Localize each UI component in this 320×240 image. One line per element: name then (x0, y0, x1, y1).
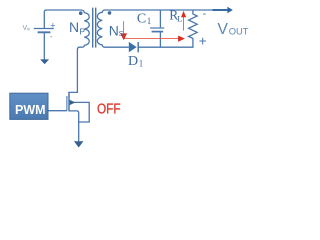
svg-text:+: + (199, 33, 207, 48)
svg-text:C: C (137, 11, 146, 26)
svg-text:V: V (217, 21, 228, 38)
svg-text:+: + (50, 21, 55, 31)
svg-text:S: S (119, 29, 124, 38)
svg-text:-: - (50, 32, 53, 41)
svg-text:L: L (177, 13, 182, 23)
svg-text:1: 1 (147, 16, 152, 26)
svg-text:OUT: OUT (229, 25, 249, 36)
svg-text:-: - (203, 8, 207, 20)
svg-text:OFF: OFF (97, 102, 121, 118)
svg-text:P: P (79, 27, 85, 37)
svg-text:in: in (27, 26, 31, 31)
svg-text:N: N (69, 19, 79, 35)
svg-text:1: 1 (139, 58, 144, 68)
svg-text:PWM: PWM (15, 103, 46, 117)
svg-text:D: D (128, 54, 138, 69)
svg-text:N: N (109, 22, 119, 38)
